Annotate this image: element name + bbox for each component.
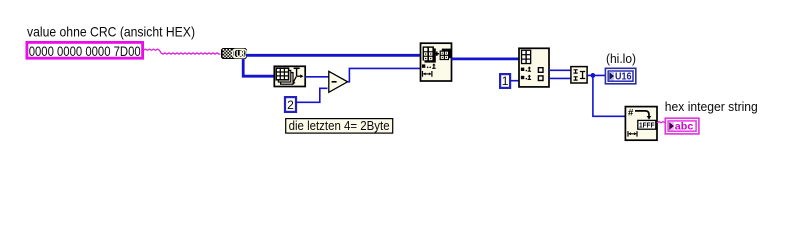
wire: junction -> Number To Hex String: [593, 76, 626, 116]
node: Array Subset: [421, 43, 452, 81]
wire: Index Array out hi -> Join Numbers: [549, 69, 571, 71]
stacked grid: [276, 68, 293, 84]
wire: Join Numbers -> U16 terminal: [587, 74, 605, 76]
svg-text:0000 0000 0000 7D00: 0000 0000 0000 7D00: [29, 44, 141, 59]
svg-text:value ohne CRC (ansicht HEX): value ohne CRC (ansicht HEX): [27, 25, 195, 40]
wire: subtract -> Array Subset index: [348, 68, 421, 81]
measure arrows: [293, 68, 301, 82]
node: Join Numbers: [571, 67, 587, 83]
wire: pink string wire Number To Hex String -> abc indicator: [657, 122, 666, 123]
wire: 2 -> subtract: [297, 88, 328, 102]
svg-text:(hi.lo): (hi.lo): [606, 51, 636, 66]
indicator terminal U16: [605, 68, 635, 84]
node: Number To Hexadecimal String: [625, 107, 657, 141]
junction dot: [591, 73, 596, 78]
svg-text:1FFF: 1FFF: [639, 120, 655, 129]
svg-text:U16: U16: [615, 71, 632, 82]
svg-text:die letzten 4= 2Byte: die letzten 4= 2Byte: [289, 118, 390, 133]
svg-text:#: #: [628, 108, 634, 119]
wire: Array Size -> subtract: [305, 76, 329, 78]
constant 2: [285, 97, 296, 112]
wire: branch down to Array Size: [243, 59, 274, 76]
node: String To Byte Array [u8]: [221, 48, 247, 59]
wire: Index Array out lo -> Join Numbers: [549, 77, 571, 79]
wire: u8 array [u8] -> Array Subset (thick blue): [246, 54, 421, 57]
plus: [435, 52, 439, 56]
indicator terminal abc (string): [665, 118, 699, 134]
svg-text:hex integer string: hex integer string: [665, 99, 758, 114]
index row 2: [521, 75, 531, 80]
comment label "die letzten 4= 2Byte": [286, 118, 393, 133]
svg-text:2: 2: [287, 98, 294, 112]
array glyph: [521, 50, 531, 65]
index row 1: [521, 66, 531, 71]
wire: Array Subset -> Index Array (thick): [452, 58, 520, 61]
wire: pink string wire control -> String To Byte Array: [144, 49, 221, 54]
element squares: [538, 68, 543, 73]
string control "value ohne CRC": [27, 42, 143, 59]
node: Index Array: [519, 48, 549, 87]
svg-text:abc: abc: [675, 122, 694, 133]
index glyph: [422, 63, 436, 68]
left array block: [423, 46, 436, 62]
node: Array Size: [274, 66, 305, 86]
constant 1: [500, 74, 510, 88]
svg-text:1: 1: [502, 74, 509, 88]
right array block (stacked): [440, 49, 452, 61]
op: subtract triangle: [329, 71, 348, 92]
wire: 1 -> Index Array: [510, 80, 519, 82]
length glyph: [423, 71, 432, 77]
